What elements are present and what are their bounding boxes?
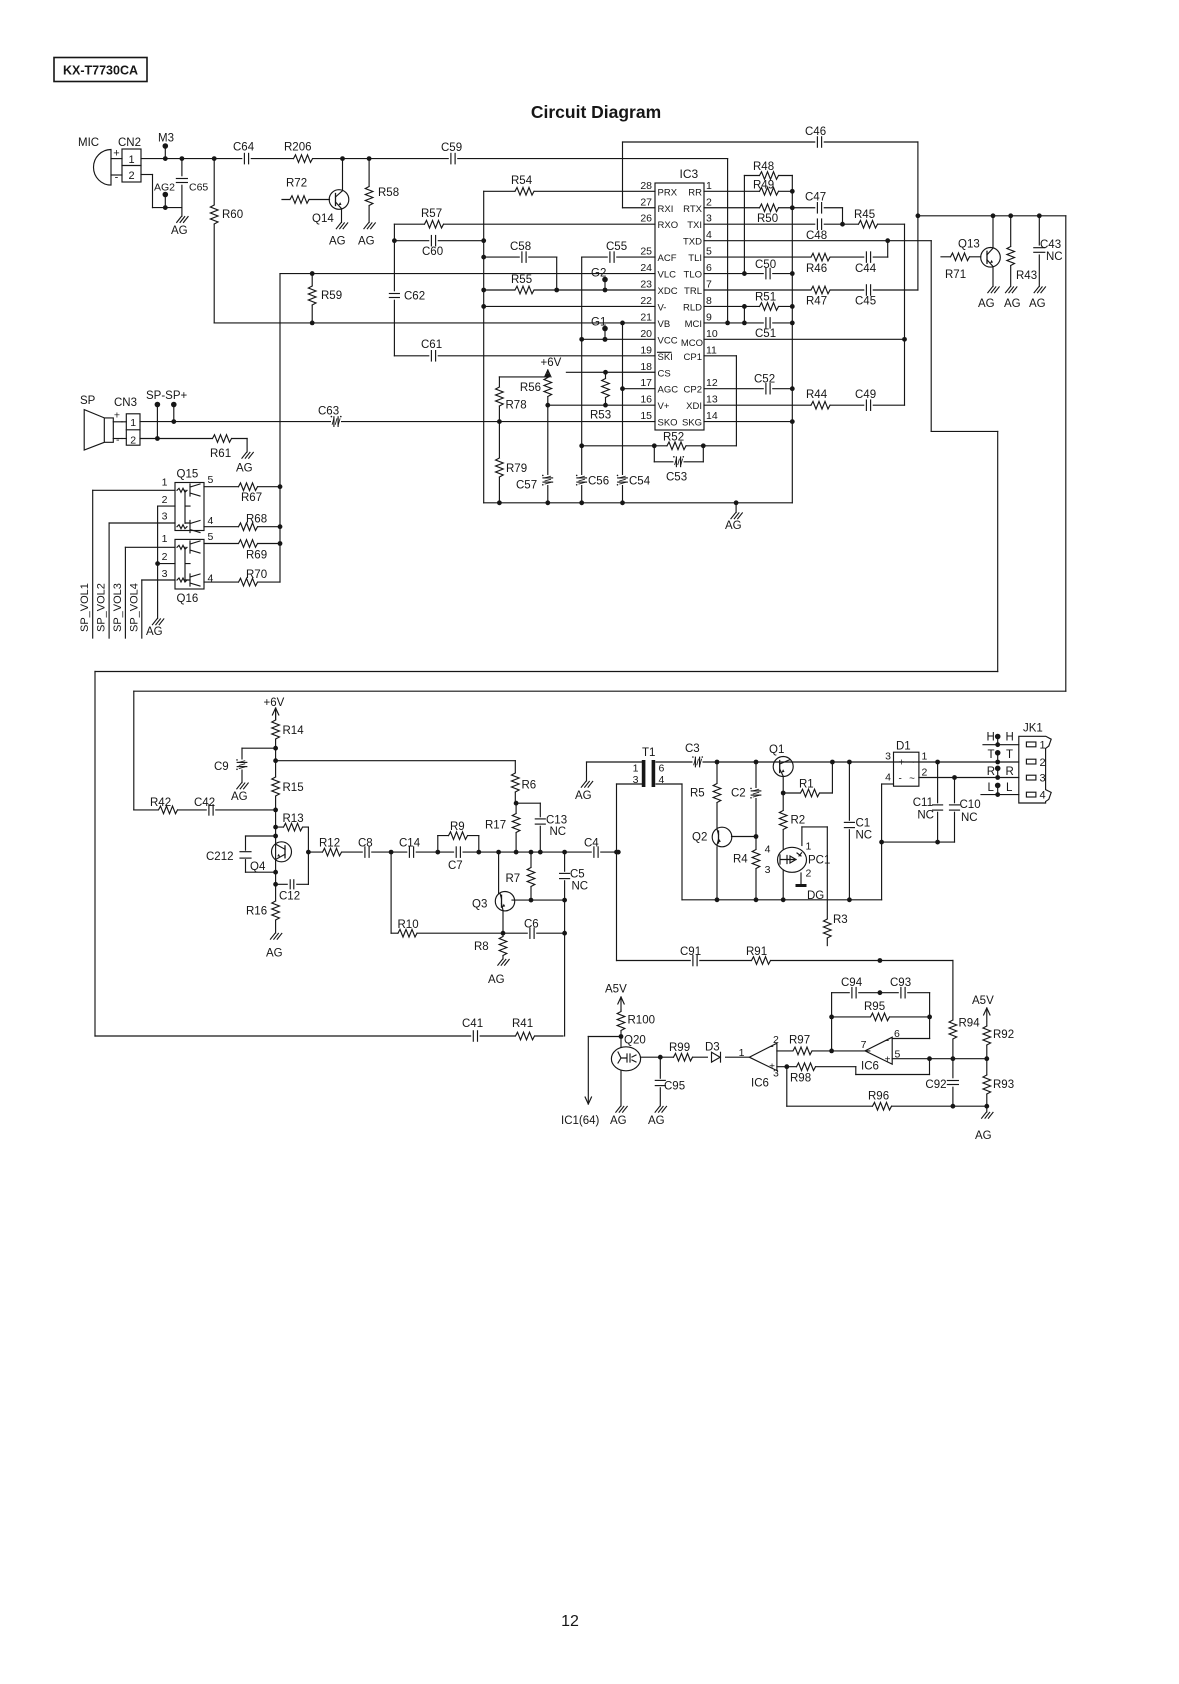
capacitor C212: [206, 851, 252, 863]
svg-text:3: 3: [633, 774, 639, 786]
svg-text:C94: C94: [841, 977, 863, 989]
transistor array Q16: [162, 531, 214, 605]
ground AG below C95: [648, 1106, 667, 1127]
svg-text:-: -: [115, 172, 119, 184]
ground AG below IC3 bus: [725, 513, 742, 532]
capacitor C61: [421, 339, 442, 362]
svg-text:R4: R4: [733, 854, 748, 866]
resistor R16: [246, 901, 281, 920]
svg-text:R69: R69: [246, 550, 267, 562]
capacitor C53: [666, 456, 687, 484]
wire mic line drop to MCI pin 9: [725, 159, 730, 326]
node M3: [158, 133, 174, 145]
ground AG for Q15/Q16 pin2: [146, 619, 164, 638]
resistor R13: [283, 813, 304, 832]
capacitor C44: [855, 251, 877, 275]
capacitor C45: [855, 284, 876, 308]
svg-text:CP1: CP1: [684, 352, 702, 363]
wire pin9 MCI row with C51: [704, 322, 792, 324]
capacitor C50: [755, 259, 776, 280]
svg-text:KX-T7730CA: KX-T7730CA: [63, 64, 138, 78]
wire SP- stub: [155, 402, 161, 439]
svg-text:-: -: [116, 434, 120, 446]
svg-text:24: 24: [640, 262, 652, 274]
net label SP_VOL3: [112, 583, 124, 632]
svg-text:PRX: PRX: [658, 187, 678, 198]
diode bridge D1: [885, 741, 927, 787]
capacitor C7: [448, 846, 463, 872]
svg-text:1: 1: [1040, 740, 1046, 752]
label H H: [987, 732, 1014, 744]
svg-text:13: 13: [706, 394, 718, 406]
svg-text:R61: R61: [210, 448, 231, 460]
svg-text:+: +: [899, 758, 905, 769]
svg-text:R1: R1: [799, 779, 814, 791]
ground AG below C65: [171, 208, 188, 237]
svg-text:4: 4: [208, 515, 214, 527]
capacitor C57: [516, 475, 553, 492]
resistor R91: [746, 946, 771, 966]
wire Q16 pin5 row with R69: [204, 543, 280, 545]
svg-text:TXI: TXI: [687, 220, 702, 231]
ground AG below C43: [1029, 287, 1046, 310]
svg-text:H: H: [987, 732, 995, 744]
svg-text:1: 1: [633, 763, 639, 775]
IC3 right pin 5 TLI: [688, 246, 712, 265]
IC3 right pin 14 SKG: [682, 410, 718, 429]
svg-text:L: L: [1006, 782, 1013, 794]
svg-text:AG: AG: [975, 1130, 992, 1142]
wire Q1 emitter/R2/PC1 vertical: [781, 778, 786, 850]
svg-text:R99: R99: [669, 1042, 690, 1054]
svg-text:Circuit Diagram: Circuit Diagram: [531, 102, 661, 122]
wire JK1 pin1 row: [983, 742, 1019, 747]
svg-text:R96: R96: [868, 1091, 889, 1103]
IC3 left pin 22 V-: [640, 295, 666, 314]
wire op-amp2 output feedback vertical: [829, 993, 834, 1051]
svg-text:R100: R100: [628, 1015, 656, 1027]
ground AG below Q14: [329, 223, 348, 248]
wire pin10 MCO row: [704, 338, 905, 340]
svg-text:5: 5: [208, 531, 214, 543]
wire pin24 VLC row: [280, 271, 655, 276]
svg-text:R13: R13: [283, 813, 304, 825]
svg-text:AG: AG: [488, 974, 505, 986]
svg-text:TLO: TLO: [684, 270, 702, 281]
ground DG: [796, 884, 825, 902]
svg-text:NC: NC: [572, 881, 589, 893]
svg-text:VLC: VLC: [658, 270, 677, 281]
svg-text:4: 4: [659, 774, 665, 786]
power +6V (audio): [264, 697, 285, 721]
ground AG below R61: [236, 452, 253, 474]
svg-text:G2: G2: [591, 268, 606, 280]
svg-text:3: 3: [773, 1068, 779, 1080]
resistor R9: [449, 821, 468, 841]
wire pin28 PRX row with R54: [484, 190, 655, 192]
capacitor C14: [399, 838, 421, 859]
svg-text:2: 2: [162, 494, 168, 506]
wire D1 pin2 to JK1 pin3 row: [919, 775, 1019, 780]
svg-text:R55: R55: [511, 274, 532, 286]
resistor R17: [485, 814, 521, 833]
svg-text:C10: C10: [960, 799, 981, 811]
svg-text:8: 8: [706, 295, 712, 307]
svg-text:C3: C3: [685, 743, 700, 755]
svg-text:3: 3: [706, 213, 712, 225]
resistor R45: [854, 209, 878, 229]
svg-text:18: 18: [640, 361, 652, 373]
capacitor C55: [606, 241, 627, 263]
wire CN3 pin2 row to R61: [140, 436, 247, 452]
connector CN3: [114, 397, 140, 447]
wire R59 vertical: [311, 274, 313, 323]
svg-text:C55: C55: [606, 241, 627, 253]
svg-text:XDC: XDC: [658, 286, 678, 297]
svg-text:V-: V-: [658, 302, 667, 313]
svg-text:ACF: ACF: [658, 253, 677, 264]
svg-text:2: 2: [128, 170, 134, 182]
svg-text:R72: R72: [286, 178, 307, 190]
svg-text:H: H: [1006, 732, 1014, 744]
svg-text:25: 25: [640, 246, 652, 258]
svg-text:4: 4: [706, 229, 712, 241]
wire Q15/Q16 pin2 ground vertical: [155, 506, 175, 618]
capacitor C46: [805, 126, 826, 148]
capacitor C64: [233, 142, 255, 165]
svg-text:C13: C13: [546, 815, 567, 827]
capacitor C60: [422, 235, 443, 259]
svg-text:R98: R98: [790, 1073, 811, 1085]
svg-text:28: 28: [640, 180, 652, 192]
wire pin22 V- row: [484, 305, 655, 307]
capacitor C11 (NC): [913, 797, 944, 822]
svg-text:NC: NC: [917, 810, 934, 822]
svg-text:22: 22: [640, 295, 652, 307]
label SP- SP+: [146, 390, 188, 402]
capacitor C4: [584, 838, 600, 859]
capacitor C41: [462, 1018, 483, 1042]
svg-text:7: 7: [861, 1039, 867, 1051]
IC3 left pin 21 VB: [640, 311, 670, 330]
svg-text:+6V: +6V: [264, 697, 285, 709]
svg-text:R3: R3: [833, 914, 848, 926]
IC3 right pin 11 CP1: [684, 344, 718, 363]
wire C212 loop: [246, 836, 276, 872]
IC3 right pin 7 TRL: [684, 279, 712, 298]
svg-text:CN2: CN2: [118, 137, 141, 149]
svg-text:1: 1: [128, 154, 134, 166]
wire C55/VCC/C56 vertical: [579, 257, 584, 503]
svg-text:R42: R42: [150, 797, 171, 809]
svg-text:6: 6: [894, 1028, 900, 1040]
wire CN2 pin2 to C65 node: [141, 175, 182, 211]
resistor R100: [616, 1012, 655, 1031]
IC3 left pin 23 XDC: [640, 279, 677, 298]
wire pin17 AGC row: [623, 388, 656, 390]
svg-text:19: 19: [640, 344, 652, 356]
IC3 left pin 24 VLC: [640, 262, 676, 281]
capacitor C63: [318, 406, 342, 428]
wire R5/Q2 vertical: [716, 762, 718, 900]
wire pin6 TLO row with C50: [704, 273, 792, 275]
svg-text:C53: C53: [666, 472, 687, 484]
svg-text:C48: C48: [806, 230, 827, 242]
ground AG below Q20: [610, 1106, 627, 1127]
capacitor C54: [617, 475, 651, 488]
resistor R1: [799, 779, 820, 799]
wire SP+ stub: [171, 402, 177, 422]
svg-text:4: 4: [765, 844, 771, 856]
label R R: [987, 766, 1014, 778]
svg-text:C6: C6: [524, 919, 539, 931]
wire +6V / R56 / C57 vertical: [545, 371, 550, 503]
wire R48/TLO left bracket vertical: [742, 176, 747, 276]
svg-text:TLI: TLI: [688, 253, 702, 264]
svg-text:~: ~: [909, 758, 915, 769]
wire analog ground bus below IC3: [484, 500, 793, 505]
svg-text:21: 21: [640, 311, 652, 323]
svg-text:C93: C93: [890, 977, 911, 989]
capacitor C65: [175, 159, 208, 208]
net label SP_VOL4: [128, 583, 140, 632]
svg-text:D1: D1: [896, 741, 911, 753]
svg-text:NC: NC: [1046, 251, 1063, 263]
svg-text:10: 10: [706, 328, 718, 340]
wire C2/Q2 base/R4 vertical: [754, 762, 759, 900]
wire VB to AGC vertical with C54: [620, 323, 625, 503]
capacitor C52: [754, 374, 775, 395]
wire C10 vertical: [954, 778, 956, 843]
svg-text:+6V: +6V: [541, 357, 562, 369]
capacitor C5 (NC): [559, 869, 589, 893]
capacitor C48: [806, 218, 827, 242]
resistor R58: [364, 159, 399, 223]
wire C91/R91 row: [617, 958, 953, 963]
wire A5V/R92/R93 vertical: [986, 1022, 988, 1112]
wire pin7 TRL row with R47 C45: [704, 289, 918, 291]
resistor R71: [941, 252, 981, 281]
net label SP_VOL1: [79, 583, 91, 632]
svg-text:SP_VOL2: SP_VOL2: [96, 583, 108, 632]
svg-text:R97: R97: [789, 1035, 810, 1047]
IC3 left pin 20 VCC: [640, 328, 677, 347]
wire PC1 pin3 to DG bus: [782, 871, 784, 900]
wire T test stub: [995, 750, 1001, 762]
capacitor C93: [890, 977, 911, 999]
svg-text:C49: C49: [855, 389, 876, 401]
wire pin15 SKO / C63 / speaker row: [140, 419, 655, 424]
resistor R10: [398, 919, 419, 938]
wire Q16 pin4 row with R70: [204, 581, 280, 583]
svg-text:AG: AG: [171, 225, 188, 237]
svg-text:PC1: PC1: [808, 855, 830, 867]
svg-text:C12: C12: [279, 891, 300, 903]
svg-text:RLD: RLD: [683, 302, 702, 313]
svg-text:SP_VOL1: SP_VOL1: [79, 583, 91, 632]
svg-text:4: 4: [208, 573, 214, 585]
wire R95 row: [832, 1015, 932, 1020]
wire pin14 SKG row: [704, 421, 792, 423]
svg-text:AG: AG: [978, 298, 995, 310]
wire op-amp2 pin5 row: [892, 1056, 989, 1061]
IC3 left pin 26 RXO: [640, 213, 678, 232]
svg-text:3: 3: [765, 864, 771, 876]
wire C1 vertical: [848, 762, 850, 900]
wire C46 feedback top line: [623, 142, 921, 290]
capacitor C92: [925, 1078, 959, 1091]
svg-text:RXI: RXI: [658, 204, 674, 215]
resistor R57: [421, 208, 444, 229]
wire R96 row: [787, 1067, 989, 1109]
svg-text:6: 6: [706, 262, 712, 274]
wire Q13 collector line: [918, 213, 1066, 218]
resistor R44: [806, 389, 830, 410]
op IC3 box: [655, 167, 704, 430]
diode D3: [705, 1042, 725, 1065]
svg-text:D3: D3: [705, 1042, 720, 1054]
svg-text:NC: NC: [550, 826, 567, 838]
svg-text:R7: R7: [506, 873, 521, 885]
resistor R79: [494, 458, 527, 477]
svg-text:6: 6: [659, 763, 665, 775]
wire R57/C60/C61 left vertical with C62: [393, 224, 395, 356]
svg-text:R78: R78: [506, 400, 527, 412]
svg-text:TXD: TXD: [683, 237, 702, 248]
connector CN2: [113, 137, 141, 184]
resistor R7: [506, 868, 537, 887]
svg-text:R68: R68: [246, 514, 267, 526]
IC3 right pin 9 MCI: [685, 311, 712, 330]
label L L: [988, 782, 1014, 794]
svg-text:R46: R46: [806, 263, 827, 275]
svg-text:R10: R10: [398, 919, 419, 931]
wire pin26 RXO row with R57: [394, 223, 655, 225]
svg-text:R17: R17: [485, 820, 506, 832]
svg-text:1: 1: [922, 751, 928, 763]
wire far right vertical to lower section: [134, 216, 1066, 691]
ground AG below R8: [488, 959, 509, 986]
wire R17 vertical: [514, 801, 519, 852]
IC3 left pin 25 ACF: [640, 246, 676, 265]
svg-text:C45: C45: [855, 296, 876, 308]
wire pin25 ACF row with C55: [582, 256, 655, 258]
resistor R51: [755, 292, 779, 312]
wire Q2 base row: [732, 836, 757, 838]
wire H test stub: [995, 734, 1001, 745]
wire PC1 pin2 to DG: [800, 873, 802, 885]
svg-text:AGC: AGC: [658, 385, 679, 396]
wire T1 pin3 / C91 junction vertical: [614, 784, 619, 961]
svg-text:1: 1: [130, 417, 136, 429]
capacitor C95: [654, 1079, 685, 1093]
transistor array Q15: [162, 469, 214, 533]
svg-text:R50: R50: [757, 213, 778, 225]
svg-text:5: 5: [208, 474, 214, 486]
wire C58 row: [484, 257, 559, 292]
capacitor C58: [510, 241, 531, 263]
svg-text:C47: C47: [805, 192, 826, 204]
connector JK1: [1019, 723, 1051, 804]
wire R52 row: [582, 443, 706, 448]
wire Q3 base vertical: [498, 852, 500, 893]
svg-text:1: 1: [806, 841, 812, 853]
svg-text:C2: C2: [731, 788, 746, 800]
capacitor C13 (NC): [534, 815, 567, 839]
svg-text:RXO: RXO: [658, 220, 679, 231]
svg-text:Q13: Q13: [958, 239, 980, 251]
net label SP_VOL2: [96, 583, 108, 632]
svg-text:R8: R8: [474, 941, 489, 953]
wire Q3 emitter drop: [502, 911, 504, 934]
wire pin27 RXI row: [623, 207, 656, 209]
svg-text:R5: R5: [690, 788, 705, 800]
svg-text:1: 1: [162, 477, 168, 489]
wire Q15 pin5 row with R67: [204, 486, 280, 488]
wire RLD/MCI bracket vertical: [742, 306, 747, 325]
svg-text:R53: R53: [590, 410, 611, 422]
svg-text:1: 1: [162, 533, 168, 545]
capacitor C91: [680, 946, 701, 967]
wire TXD net down right side to lower section: [95, 241, 998, 672]
wire pin23 XDC row with R55: [484, 289, 655, 291]
svg-text:3: 3: [162, 568, 168, 580]
label IC1(64) destination arrow: [561, 1091, 600, 1127]
wire A5V/R100/Q20 vertical: [619, 1010, 624, 1106]
svg-text:C59: C59: [441, 142, 462, 154]
svg-text:C63: C63: [318, 406, 339, 418]
resistor R48: [753, 161, 779, 181]
svg-text:1: 1: [739, 1047, 745, 1059]
resistor R93: [982, 1075, 1014, 1094]
wire pin21 VB row: [214, 321, 655, 326]
svg-text:NC: NC: [856, 830, 873, 842]
IC3 right pin 13 XDI: [686, 394, 718, 413]
capacitor C8: [358, 838, 373, 859]
wire pin18 CS row: [566, 370, 655, 375]
svg-text:C64: C64: [233, 142, 255, 154]
svg-text:15: 15: [640, 410, 652, 422]
IC3 left pin 28 PRX: [640, 180, 677, 199]
svg-text:MCO: MCO: [681, 338, 703, 349]
svg-text:AG: AG: [231, 791, 248, 803]
wire top power row T1 pin6 to JK1 pin2: [656, 760, 1019, 765]
svg-text:IC6: IC6: [861, 1061, 879, 1073]
svg-text:R49: R49: [753, 180, 774, 192]
wire left vertical to C41 line: [95, 672, 563, 1037]
svg-text:-: -: [899, 774, 902, 785]
svg-text:IC6: IC6: [751, 1078, 769, 1090]
transistor Q20 (electret buffer): [611, 1035, 645, 1071]
IC3 right pin 3 TXI: [687, 213, 712, 232]
resistor R70: [239, 569, 268, 587]
svg-text:R12: R12: [319, 838, 340, 850]
power A5V (R92): [972, 995, 994, 1021]
svg-text:R14: R14: [283, 725, 305, 737]
resistor R8: [474, 937, 508, 956]
transistor Q2: [692, 827, 732, 847]
svg-text:C92: C92: [925, 1079, 946, 1091]
svg-text:R15: R15: [283, 782, 304, 794]
ground AG below R58: [358, 223, 375, 248]
svg-text:C11: C11: [913, 797, 933, 809]
title Circuit Diagram: [531, 102, 661, 122]
wire R8 ground leg: [502, 933, 504, 959]
svg-text:VCC: VCC: [658, 335, 678, 346]
transistor Q14: [312, 159, 349, 225]
capacitor C59: [441, 142, 462, 165]
resistor R96: [868, 1091, 892, 1112]
